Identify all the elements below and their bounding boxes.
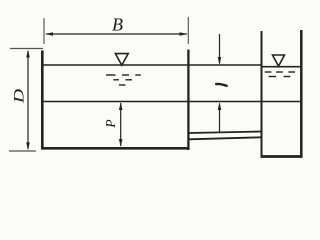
svg-text:B: B [112, 15, 123, 35]
svg-text:D: D [11, 88, 27, 104]
svg-text:P: P [103, 119, 118, 128]
